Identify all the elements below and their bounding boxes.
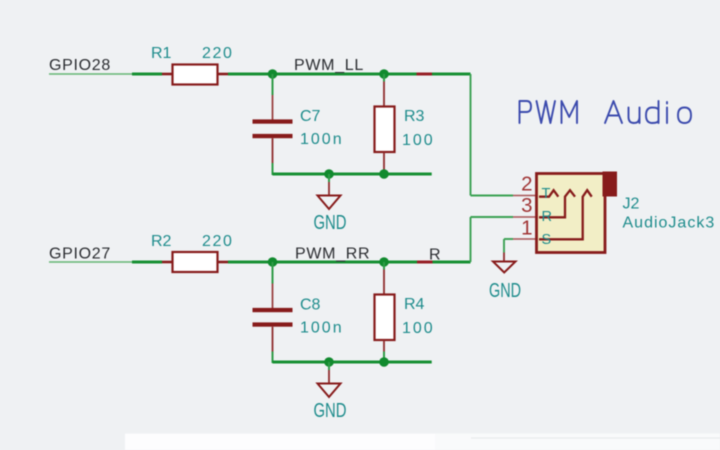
junction bottom at R4 — [379, 257, 389, 267]
svg-text:220: 220 — [202, 233, 234, 250]
junction GND bottom — [324, 357, 334, 367]
ground bottom circuit — [318, 362, 341, 397]
svg-text:GND: GND — [489, 280, 521, 302]
svg-text:PWM_RR: PWM_RR — [295, 246, 370, 263]
svg-text:PWM_LL: PWM_LL — [294, 57, 364, 74]
junction PWM_LL at C7 — [268, 69, 278, 79]
svg-text:R2: R2 — [151, 233, 172, 250]
svg-text:C8: C8 — [300, 297, 321, 314]
svg-text:100n: 100n — [300, 320, 344, 337]
wire GPIO28 to R1 — [49, 73, 162, 75]
svg-text:220: 220 — [202, 45, 234, 62]
resistor R3 — [375, 74, 395, 170]
junction PWM_RR at C8 — [268, 257, 278, 267]
svg-text:J2: J2 — [623, 196, 640, 213]
junction R4 bottom — [379, 357, 389, 367]
red net segment top — [417, 73, 433, 76]
resistor R2 — [162, 252, 228, 272]
svg-text:AudioJack3: AudioJack3 — [623, 215, 716, 232]
wire lower horizontal bottom circuit — [273, 361, 432, 364]
wire jack pin 1 to ground — [504, 239, 513, 253]
svg-text:3: 3 — [521, 194, 532, 217]
connector J2 AudioJack3 — [513, 172, 617, 253]
wire bottom circuit to jack pin 3 — [471, 217, 514, 262]
resistor R1 — [162, 65, 228, 85]
wire R1 to jack drop — [228, 73, 471, 76]
title PWM Audio — [520, 101, 692, 123]
svg-text:GPIO28: GPIO28 — [49, 57, 111, 74]
svg-text:R: R — [542, 209, 552, 225]
capacitor C8 — [253, 262, 293, 363]
svg-text:2: 2 — [521, 173, 532, 196]
svg-text:GPIO27: GPIO27 — [49, 246, 111, 263]
ground top circuit — [318, 174, 341, 209]
svg-text:R3: R3 — [404, 108, 425, 125]
wire top circuit to jack pin 2 — [471, 74, 514, 196]
resistor R4 — [375, 262, 395, 362]
svg-text:100: 100 — [402, 320, 435, 337]
wire R2 to jack drop — [228, 261, 471, 264]
svg-text:GND: GND — [314, 212, 347, 234]
junction R3 bottom — [379, 169, 389, 179]
svg-text:GND: GND — [314, 400, 347, 422]
svg-text:100n: 100n — [300, 131, 344, 148]
svg-text:C7: C7 — [300, 108, 321, 125]
capacitor C7 — [253, 74, 293, 175]
svg-text:R1: R1 — [151, 45, 172, 62]
svg-text:1: 1 — [521, 217, 532, 240]
wire lower horizontal top circuit — [273, 173, 432, 176]
svg-text:T: T — [542, 186, 551, 202]
junction top at R3 — [379, 69, 389, 79]
junction GND top — [324, 169, 334, 179]
ground at jack — [493, 253, 516, 273]
svg-text:100: 100 — [402, 132, 435, 149]
wire GPIO27 to R2 — [49, 261, 162, 263]
svg-text:R: R — [429, 247, 441, 264]
svg-text:R4: R4 — [404, 296, 425, 313]
svg-text:S: S — [542, 232, 552, 248]
red net segment bottom — [417, 261, 433, 264]
